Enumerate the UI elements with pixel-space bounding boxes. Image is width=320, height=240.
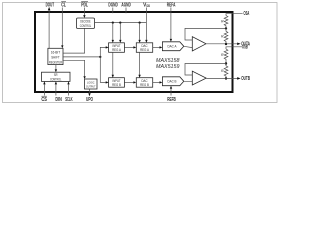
node rail-1	[112, 22, 114, 24]
DAC register B box	[136, 78, 152, 88]
control rail wire	[95, 22, 147, 24]
resistor R2A	[224, 28, 228, 44]
wire shift register to logic output	[63, 60, 85, 76]
node rail-2	[119, 22, 121, 24]
arrow into control box top	[55, 69, 57, 72]
pin VDD arrow	[145, 40, 147, 43]
pin DGND stub	[112, 8, 114, 14]
svg-text:16-BIT: 16-BIT	[51, 50, 61, 54]
arrow into DAC reg B top	[138, 75, 140, 78]
decode control U2 box	[77, 18, 95, 28]
svg-text:OSB: OSB	[242, 45, 248, 51]
DAC B symbol	[162, 77, 183, 86]
pin OUTA arrow	[237, 43, 240, 46]
logic output U5 box	[85, 79, 98, 89]
wire OSB entry	[226, 47, 242, 49]
pin CS overline	[41, 95, 47, 97]
svg-text:SHIFT: SHIFT	[51, 55, 60, 59]
arrow into input reg A left	[106, 46, 109, 48]
page frame	[3, 3, 278, 103]
pin DOUT arrow	[48, 7, 51, 10]
pin UPO line	[89, 89, 91, 93]
wire shift register to control	[55, 65, 57, 70]
wire op-amp B feedback	[185, 64, 226, 76]
svg-text:OUTPUT: OUTPUT	[86, 85, 96, 89]
pin REFA line	[170, 8, 172, 40]
arrow into DAC reg A	[133, 46, 136, 48]
wire DAC A to op-amp A	[184, 46, 193, 47]
svg-text:R: R	[221, 35, 224, 39]
pin VDD line	[145, 8, 147, 41]
wire shift register serial line	[63, 56, 100, 58]
svg-text:DGND: DGND	[108, 2, 118, 8]
svg-text:DAC A: DAC A	[168, 45, 178, 49]
svg-text:REG A: REG A	[140, 48, 149, 52]
op-amp U1A triangle	[192, 37, 206, 51]
pin AGND stub	[125, 8, 127, 14]
svg-text:AGND: AGND	[121, 2, 131, 8]
node rail-3	[139, 22, 141, 24]
svg-text:UPO: UPO	[86, 97, 93, 103]
DAC register A box	[136, 43, 152, 53]
wire serial to input reg A	[100, 47, 106, 57]
wire DAC reg A to DAC reg B passthrough	[139, 52, 141, 75]
node serial split	[99, 56, 101, 58]
pin CL arrow	[61, 45, 63, 48]
svg-text:REG A: REG A	[112, 48, 121, 52]
input register A box	[109, 43, 125, 53]
pin DIN line	[55, 84, 57, 95]
wire DAC B to op-amp B	[184, 80, 193, 82]
svg-text:R: R	[221, 53, 224, 57]
pin CL overline	[61, 1, 66, 3]
svg-text:MAX5159: MAX5159	[156, 64, 180, 70]
wire serial to input reg B	[100, 57, 106, 83]
resistor R1B	[224, 49, 228, 64]
resistor R2B	[224, 64, 228, 79]
svg-text:OUTB: OUTB	[241, 76, 250, 82]
pin REFB line	[170, 88, 172, 95]
pin CS line	[43, 84, 45, 95]
wire op-amp A output	[206, 43, 238, 45]
svg-text:REFB: REFB	[167, 97, 176, 103]
pin DIN arrow	[55, 81, 57, 84]
arrow into input reg B left	[106, 81, 109, 83]
wire shift register to decode control	[63, 28, 85, 53]
arrow into DAC B	[160, 81, 163, 83]
resistor R1A	[224, 16, 228, 29]
svg-text:PDL: PDL	[81, 2, 88, 8]
arrow into logic output box	[83, 76, 85, 79]
pin SCLK arrow	[67, 81, 69, 84]
wire drop to input reg A pin1	[112, 23, 114, 40]
input register B box	[109, 78, 125, 88]
pin UPO arrow	[88, 93, 90, 96]
svg-text:CONTROL: CONTROL	[80, 24, 91, 28]
svg-text:OSA: OSA	[244, 11, 250, 17]
pin SCLK line	[68, 84, 70, 95]
wire DAC reg B to DAC B	[153, 81, 160, 83]
wire DAC reg A to DAC A	[153, 46, 160, 48]
SR control U4 box	[42, 72, 71, 81]
DAC A symbol	[162, 42, 183, 51]
svg-text:CS: CS	[41, 97, 47, 103]
pin OUTB arrow	[237, 77, 240, 80]
svg-text:REG B: REG B	[140, 83, 149, 87]
svg-text:REG B: REG B	[112, 83, 121, 87]
pin DOUT line	[48, 10, 50, 49]
pin PDL arrow	[83, 15, 85, 18]
pin PDL line	[83, 8, 85, 16]
wire drop to DAC reg A pin1	[139, 23, 141, 40]
svg-text:SCLK: SCLK	[65, 97, 73, 103]
pin PDL overline	[81, 1, 88, 3]
node op-amp A output junction	[225, 43, 227, 45]
svg-text:CL: CL	[61, 2, 66, 8]
pin REFB arrow	[170, 86, 172, 89]
chip boundary	[35, 12, 233, 92]
node op-amp A feedback junction	[225, 27, 227, 29]
pin CL line	[61, 8, 63, 46]
wire op-amp B output	[206, 77, 237, 79]
node op-amp B output junction	[225, 77, 227, 79]
pin CS arrow	[43, 81, 45, 84]
svg-text:DD: DD	[147, 4, 151, 8]
op-amp U1B triangle	[192, 71, 206, 85]
svg-text:DOUT: DOUT	[46, 2, 55, 8]
arrow into input reg A pin1	[112, 40, 114, 43]
svg-text:DIN: DIN	[55, 97, 62, 103]
node op-amp B feedback junction	[225, 62, 227, 64]
wire drop to input reg A pin2	[119, 23, 121, 40]
shift register U3 box	[48, 48, 63, 64]
wire op-amp A feedback	[185, 28, 226, 40]
svg-text:DECODE: DECODE	[80, 19, 91, 23]
svg-text:DAC B: DAC B	[168, 80, 178, 84]
svg-text:REGISTER: REGISTER	[49, 60, 63, 64]
svg-text:R: R	[221, 19, 224, 23]
wire input reg A to DAC reg A	[124, 46, 133, 48]
svg-text:CONTROL: CONTROL	[50, 77, 61, 81]
wire input reg A to input reg B passthrough	[112, 52, 114, 75]
pin REFA arrow	[170, 39, 172, 42]
arrow into DAC reg A pin1	[138, 40, 140, 43]
svg-text:REFA: REFA	[167, 2, 176, 8]
arrow into input reg A pin2	[119, 40, 121, 43]
arrow into input reg B top	[112, 75, 114, 78]
wire OSA chain top	[226, 14, 243, 16]
svg-text:R: R	[221, 69, 224, 73]
wire input reg B to DAC reg B	[124, 81, 133, 83]
arrow into DAC A	[160, 46, 163, 48]
arrow into DAC reg B	[133, 81, 136, 83]
